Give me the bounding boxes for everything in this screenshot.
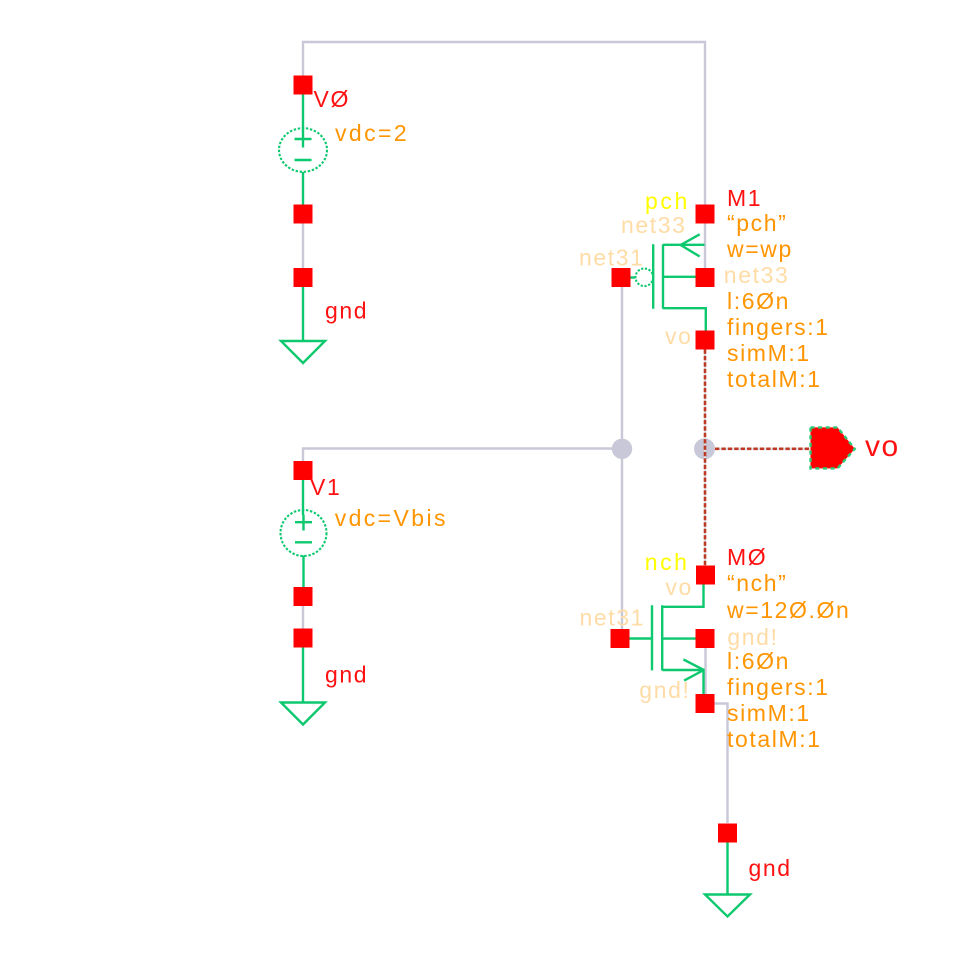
svg-text:vo: vo: [665, 323, 693, 349]
svg-text:vo: vo: [665, 574, 693, 600]
svg-text:net33: net33: [724, 262, 790, 288]
svg-text:gnd!: gnd!: [727, 624, 778, 650]
svg-text:nch: nch: [645, 549, 690, 575]
svg-text:w=12Ø.Øn: w=12Ø.Øn: [726, 597, 850, 623]
svg-text:totalM:1: totalM:1: [727, 726, 822, 752]
svg-text:simM:1: simM:1: [727, 340, 811, 366]
svg-text:fingers:1: fingers:1: [727, 674, 830, 700]
svg-text:MØ: MØ: [727, 544, 767, 570]
svg-text:l:6Øn: l:6Øn: [727, 288, 790, 314]
svg-text:“nch”: “nch”: [727, 570, 787, 596]
svg-text:VØ: VØ: [314, 86, 350, 112]
svg-text:net31: net31: [579, 245, 645, 271]
svg-text:fingers:1: fingers:1: [727, 314, 830, 340]
svg-text:gnd!: gnd!: [639, 677, 690, 703]
svg-text:net33: net33: [621, 212, 687, 238]
svg-text:l:6Øn: l:6Øn: [727, 648, 790, 674]
svg-text:M1: M1: [727, 185, 762, 211]
svg-text:gnd: gnd: [749, 855, 792, 881]
svg-text:gnd: gnd: [325, 298, 368, 324]
svg-text:simM:1: simM:1: [727, 700, 811, 726]
svg-text:V1: V1: [310, 474, 341, 500]
svg-text:“pch”: “pch”: [727, 210, 787, 236]
svg-text:w=wp: w=wp: [726, 236, 793, 262]
svg-text:vo: vo: [865, 430, 900, 463]
svg-text:net31: net31: [580, 605, 646, 631]
svg-text:pch: pch: [645, 188, 690, 214]
svg-text:vdc=2: vdc=2: [335, 120, 409, 146]
svg-text:totalM:1: totalM:1: [727, 366, 822, 392]
svg-text:vdc=Vbis: vdc=Vbis: [335, 505, 448, 531]
svg-text:gnd: gnd: [325, 662, 368, 688]
